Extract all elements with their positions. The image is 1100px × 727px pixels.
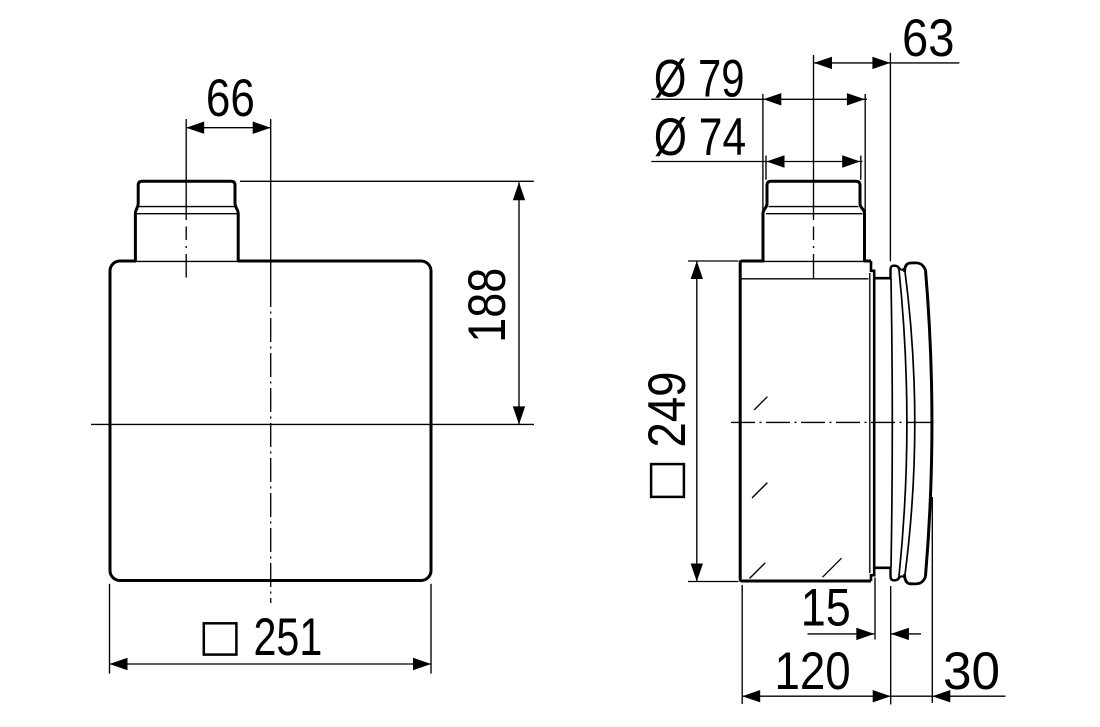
surface hatch mark 3: [750, 563, 766, 579]
side view spigot outline: [763, 181, 865, 261]
side view body (right): [740, 261, 871, 581]
cover outer shell left edge arc: [905, 268, 915, 577]
side view horizontal centerline (dash-dot): [731, 421, 934, 423]
dimension dia79 line: [651, 98, 867, 100]
dimension 30 extension line: [931, 497, 933, 703]
svg-text:30: 30: [943, 642, 1000, 701]
frame bottom edge: [874, 566, 891, 569]
dimension 66 line: [186, 127, 271, 129]
front view body (left, rounded square housing): [110, 261, 431, 581]
side view flange line near top: [742, 278, 869, 280]
surface hatch mark 1: [754, 397, 767, 410]
dimension 63 wall extension line: [889, 53, 891, 262]
dimension 249 square symbol: [651, 464, 684, 497]
dimension 249 extension lines: [688, 260, 739, 262]
dia79 extension lines: [762, 94, 764, 213]
svg-text:63: 63: [902, 9, 955, 68]
dimension 15 extension line: [874, 578, 876, 640]
cover outer shell front edge arc: [926, 270, 932, 576]
dimension 188 line: [518, 182, 520, 424]
dimension 249 line: [696, 261, 698, 582]
dimension 63 line: [814, 62, 959, 64]
dimension 251 line: [110, 663, 432, 665]
dimension 120 extension lines: [741, 585, 743, 704]
cover notch between blades: [899, 268, 905, 270]
dimension 251 extension lines: [109, 584, 111, 674]
dimension 120 line: [742, 695, 891, 697]
front spigot bead line lower: [136, 213, 238, 215]
svg-text:15: 15: [801, 579, 851, 638]
side view body right edge (thin, behind frame): [869, 273, 871, 573]
cover outer shell top cap: [905, 263, 926, 272]
dimension 15 lines: [808, 633, 875, 635]
svg-text:Ø 74: Ø 74: [654, 108, 746, 167]
dimension dia74 line: [651, 161, 862, 163]
svg-text:188: 188: [458, 268, 517, 343]
front view body top edge hidden under spigot (thin): [136, 259, 238, 263]
cover blade A top cap: [891, 266, 899, 279]
front view spigot (duct connector) outline: [135, 181, 238, 261]
side spigot bead line upper: [769, 206, 859, 208]
svg-text:251: 251: [254, 608, 323, 667]
dimension 188 extension line (from spigot top): [240, 180, 534, 182]
side view body top edge hidden under spigot (thin): [764, 259, 864, 263]
svg-text:66: 66: [206, 69, 255, 128]
dimension 30 line: [891, 695, 1006, 697]
surface hatch mark 2: [752, 483, 767, 498]
side spigot bead line lower: [766, 213, 863, 215]
front spigot bead line upper: [137, 206, 237, 208]
cover blade A bottom cap: [891, 568, 899, 581]
cover blade A back edge arc: [891, 278, 892, 568]
surface hatch mark 4: [823, 558, 842, 577]
frame top edge: [874, 277, 891, 280]
front body horizontal centerline: [91, 423, 534, 425]
side spigot centerline: [813, 55, 815, 278]
svg-text:120: 120: [775, 642, 851, 701]
cover outer shell bottom cap: [905, 574, 926, 584]
svg-text:Ø 79: Ø 79: [654, 50, 745, 109]
svg-text:249: 249: [638, 372, 697, 448]
cover blade A front edge arc: [899, 269, 907, 577]
dimension 251 square symbol: [204, 623, 237, 654]
front body vertical centerline: [270, 119, 272, 603]
side view right steps / mounting frame: [871, 261, 874, 581]
front spigot centerline: [185, 119, 187, 278]
dia74 extension lines: [765, 156, 767, 180]
